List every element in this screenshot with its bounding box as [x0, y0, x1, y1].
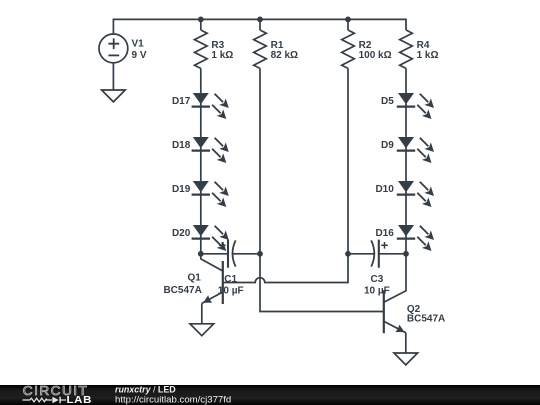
node junction at (260,254) — [257, 251, 263, 257]
LED D17 — [192, 93, 229, 119]
wire V1 to ground — [112, 63, 114, 90]
svg-text:100 kΩ: 100 kΩ — [359, 50, 392, 61]
transistor Q2 — [384, 254, 406, 353]
svg-text:Q1: Q1 — [187, 273, 201, 284]
LED D20 — [192, 225, 229, 251]
svg-text:V1: V1 — [132, 38, 145, 49]
ground under Q2 — [394, 353, 418, 365]
wire R4 to D5 — [405, 68, 407, 93]
transistor Q1 — [201, 254, 223, 324]
svg-text:D20: D20 — [172, 228, 191, 239]
ground under V1 — [102, 90, 126, 102]
node junction at (348,19) — [345, 17, 351, 23]
node junction at (201,19) — [198, 17, 204, 23]
node junction at (260,19) — [257, 17, 263, 23]
svg-text:http://circuitlab.com/cj377fd: http://circuitlab.com/cj377fd — [115, 394, 231, 405]
wire node C to C3 — [348, 253, 374, 255]
wire Q2 base to node B — [260, 254, 384, 312]
wire top rail — [113, 19, 406, 33]
resistor R4 — [400, 30, 413, 68]
svg-text:D16: D16 — [375, 228, 394, 239]
LED D10 — [397, 181, 434, 207]
LED D5 — [397, 93, 434, 119]
svg-text:10 µF: 10 µF — [364, 286, 390, 297]
wire R2 down to node — [347, 68, 349, 253]
wire R1 top stub — [259, 19, 261, 30]
wire C1 to node B — [232, 253, 260, 255]
wire left LED chain — [200, 93, 202, 254]
wire C3 to node D — [379, 253, 406, 255]
svg-text:C3: C3 — [371, 274, 384, 285]
svg-text:LAB: LAB — [67, 395, 93, 405]
voltage source V1 — [99, 34, 128, 63]
wire R3 top stub — [200, 19, 202, 30]
resistor R3 — [195, 30, 208, 68]
svg-text:1 kΩ: 1 kΩ — [211, 50, 233, 61]
svg-text:D17: D17 — [172, 96, 191, 107]
svg-text:10 µF: 10 µF — [218, 286, 244, 297]
svg-text:D5: D5 — [381, 96, 394, 107]
node junction at (406,254) — [403, 251, 409, 257]
ground under Q1 — [190, 324, 214, 336]
svg-text:9 V: 9 V — [132, 50, 147, 61]
capacitor C1 — [219, 240, 236, 268]
wire R2 top stub — [347, 19, 349, 30]
resistor R1 — [254, 30, 267, 68]
svg-text:runxctry / LED: runxctry / LED — [115, 385, 176, 395]
wire R3 to D17 — [200, 68, 202, 93]
svg-text:D19: D19 — [172, 184, 191, 195]
footer bar — [0, 385, 540, 405]
node junction at (201,254) — [198, 251, 204, 257]
svg-text:1 kΩ: 1 kΩ — [417, 50, 439, 61]
svg-text:D18: D18 — [172, 140, 191, 151]
svg-text:BC547A: BC547A — [407, 314, 445, 325]
wire Q1 base to node C (hop over R1 wire) — [223, 254, 348, 283]
LED D16 — [397, 225, 434, 251]
svg-text:BC547A: BC547A — [163, 285, 201, 296]
LED D18 — [192, 137, 229, 163]
wire node A to C1 — [201, 253, 228, 255]
LED D9 — [397, 137, 434, 163]
svg-text:D9: D9 — [381, 140, 394, 151]
LED D19 — [192, 181, 229, 207]
svg-text:D10: D10 — [375, 184, 394, 195]
svg-text:82 kΩ: 82 kΩ — [271, 50, 298, 61]
wire R1 down to node — [259, 68, 261, 253]
node junction at (348,254) — [345, 251, 351, 257]
capacitor C3 — [371, 240, 388, 268]
resistor R2 — [342, 30, 355, 68]
CircuitLab logo mark resistor-diode line — [23, 397, 67, 404]
wire right LED chain — [405, 93, 407, 254]
